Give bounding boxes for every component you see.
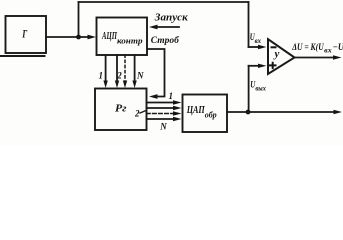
svg-text:Строб: Строб bbox=[151, 35, 180, 46]
wire G to ADC bbox=[46, 36, 90, 38]
node junction dot DAC output bbox=[246, 110, 251, 115]
wire bus bitN Rg to DAC bbox=[147, 118, 175, 120]
wire Strob to Rg bbox=[148, 49, 165, 97]
wire op-amp output bbox=[295, 57, 335, 59]
arrowhead bus bit1 right bbox=[173, 100, 182, 104]
box Rg (register) bbox=[95, 89, 147, 131]
arrowhead bus bit1 down bbox=[103, 81, 107, 89]
wire bus bit2 ADC to Rg bbox=[116, 55, 118, 82]
svg-text:вх: вх bbox=[255, 37, 262, 45]
wire bus bit1 Rg to DAC bbox=[147, 102, 175, 104]
svg-text:вх: вх bbox=[324, 47, 332, 55]
wire top rail bbox=[79, 1, 249, 3]
wire bus dots Rg to DAC bbox=[147, 113, 175, 115]
node junction dot G wire bbox=[76, 35, 81, 40]
arrowhead Zapusk bbox=[149, 25, 158, 30]
box ADC (ACP kontr) bbox=[97, 18, 148, 56]
wire junction riser bbox=[78, 2, 80, 37]
wire Zapusk stub bbox=[155, 26, 179, 28]
wire DAC output to right edge bbox=[227, 111, 334, 113]
wire scan artifact bottom left bbox=[0, 55, 45, 57]
wire bus dots ADC to Rg bbox=[124, 55, 126, 82]
arrowhead Strob into Rg bbox=[149, 94, 158, 99]
svg-text:Г: Г bbox=[22, 27, 28, 41]
wire bus bitN ADC to Rg bbox=[134, 55, 136, 82]
op-amp plus sign bbox=[269, 62, 277, 69]
arrowhead DAC line right edge bbox=[334, 110, 343, 114]
svg-text:2: 2 bbox=[134, 108, 140, 118]
svg-text:N: N bbox=[159, 121, 167, 131]
svg-text:1: 1 bbox=[99, 71, 104, 81]
svg-text:ЦАП: ЦАП bbox=[186, 104, 205, 116]
arrowhead into plus input bbox=[258, 64, 267, 68]
arrowhead bus bitN right bbox=[173, 117, 182, 121]
wire down to minus input bbox=[248, 2, 250, 47]
svg-text:контр: контр bbox=[117, 36, 143, 46]
wire bus bit1 ADC to Rg bbox=[105, 55, 107, 82]
label 2 leader line bbox=[140, 111, 146, 114]
arrowhead bus dots down bbox=[123, 81, 127, 89]
svg-text:−U: −U bbox=[333, 43, 343, 53]
svg-text:Запуск: Запуск bbox=[154, 13, 189, 24]
box G (generator) bbox=[6, 16, 47, 53]
wire into plus input bbox=[249, 65, 260, 67]
arrowhead bus bit2 down bbox=[115, 81, 119, 89]
arrowhead bus dots right bbox=[173, 111, 182, 115]
svg-text:N: N bbox=[136, 71, 144, 81]
wire into minus input bbox=[249, 46, 261, 48]
op-amp minus sign bbox=[271, 46, 277, 48]
arrowhead bus bit2 right bbox=[173, 106, 182, 110]
svg-text:2: 2 bbox=[116, 71, 122, 81]
svg-text:АЦП: АЦП bbox=[101, 30, 117, 42]
box DAC (CAP obr) bbox=[183, 95, 228, 133]
arrowhead into ADC bbox=[88, 35, 97, 40]
arrowhead op-amp output bbox=[333, 55, 342, 59]
svg-text:обр: обр bbox=[205, 111, 217, 120]
arrowhead into minus input bbox=[258, 45, 267, 49]
svg-text:у: у bbox=[273, 48, 280, 60]
op-amp U comparator triangle bbox=[268, 39, 295, 74]
svg-text:1: 1 bbox=[169, 91, 174, 101]
svg-text:вых: вых bbox=[255, 85, 266, 93]
wire bus bit2 Rg to DAC bbox=[147, 107, 175, 109]
wire riser to plus input bbox=[248, 66, 250, 112]
svg-text:Рг: Рг bbox=[115, 103, 127, 115]
arrowhead bus bitN down bbox=[132, 81, 136, 89]
svg-text:ΔU = К(U: ΔU = К(U bbox=[291, 42, 324, 53]
